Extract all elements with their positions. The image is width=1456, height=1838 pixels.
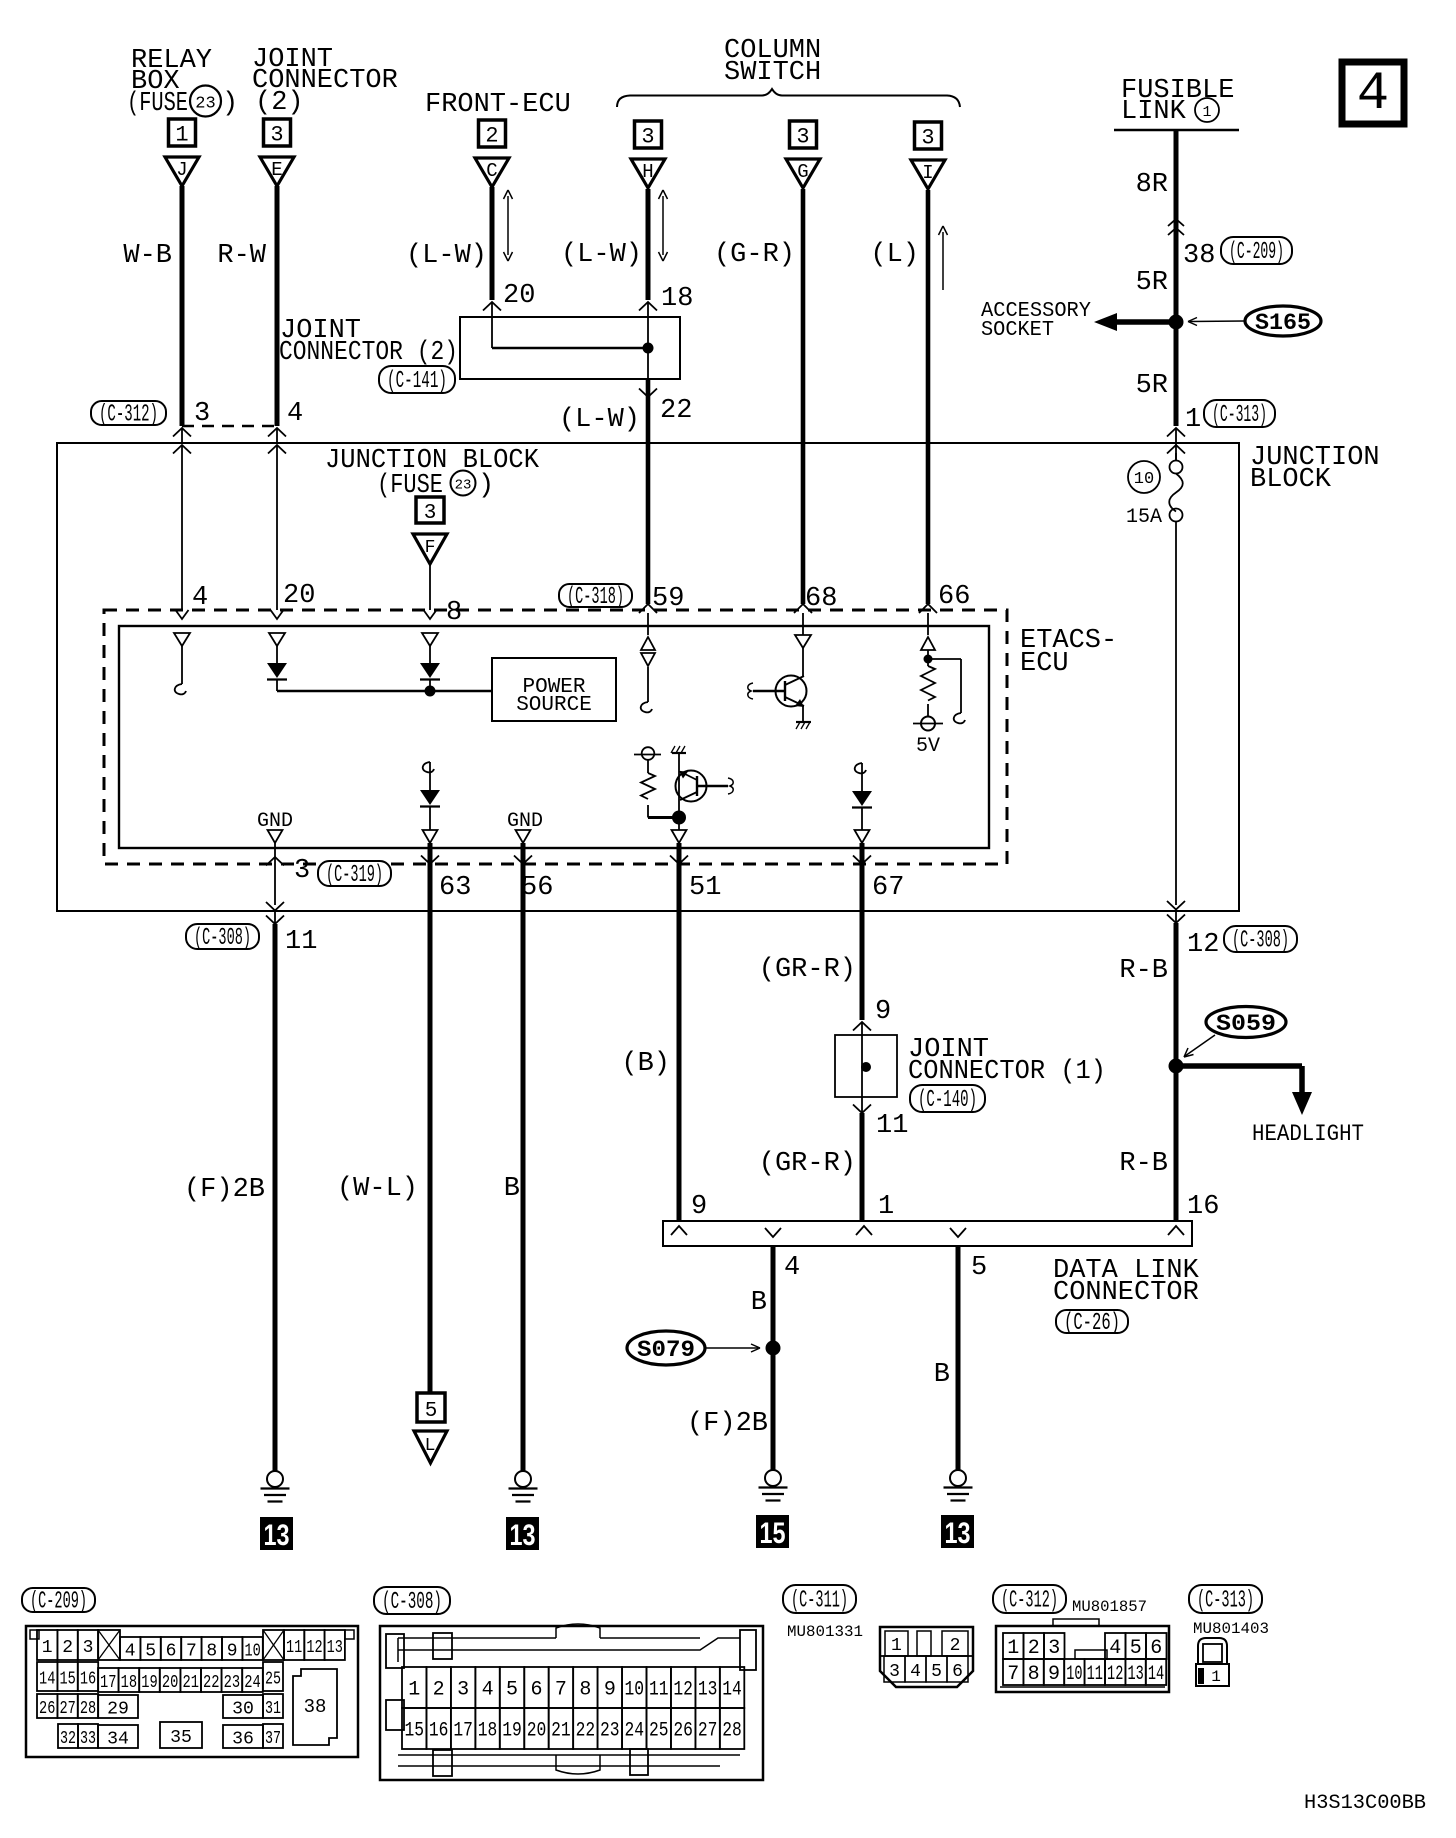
svg-text:2: 2	[485, 124, 498, 149]
svg-text:29: 29	[107, 1700, 129, 1720]
svg-text:H: H	[642, 161, 653, 183]
svg-text:15: 15	[760, 1517, 786, 1550]
svg-text:17: 17	[100, 1673, 116, 1693]
svg-text:R-B: R-B	[1119, 1149, 1168, 1179]
svg-text:MU801331: MU801331	[787, 1623, 863, 1641]
svg-text:15: 15	[59, 1670, 75, 1690]
svg-text:22: 22	[576, 1720, 596, 1743]
svg-text:21: 21	[182, 1673, 198, 1693]
svg-text:9: 9	[1048, 1663, 1060, 1686]
svg-text:1: 1	[1211, 1668, 1221, 1686]
svg-text:SOCKET: SOCKET	[981, 319, 1054, 342]
svg-text:18: 18	[121, 1673, 137, 1693]
svg-text:20: 20	[162, 1673, 178, 1693]
svg-text:3: 3	[641, 125, 654, 150]
svg-text:CONNECTOR (2): CONNECTOR (2)	[279, 338, 458, 368]
svg-text:16: 16	[80, 1670, 96, 1690]
svg-text:25: 25	[265, 1670, 281, 1690]
svg-text:10: 10	[1134, 470, 1154, 489]
svg-text:12: 12	[673, 1679, 693, 1702]
svg-text:3: 3	[889, 1662, 900, 1682]
svg-text:5: 5	[931, 1662, 942, 1682]
svg-text:(F)2B: (F)2B	[184, 1175, 265, 1205]
svg-text:10: 10	[1066, 1663, 1082, 1686]
svg-text:15: 15	[404, 1720, 424, 1743]
svg-text:(C-318): (C-318)	[567, 584, 624, 611]
svg-text:12: 12	[1187, 930, 1219, 960]
svg-text:(L-W): (L-W)	[559, 405, 640, 435]
svg-text:8: 8	[206, 1642, 217, 1662]
svg-text:3: 3	[1048, 1637, 1060, 1660]
svg-text:(C-26): (C-26)	[1064, 1310, 1120, 1337]
svg-text:R-W: R-W	[217, 241, 266, 271]
svg-text:4: 4	[1357, 64, 1389, 125]
svg-text:26: 26	[673, 1720, 693, 1743]
svg-text:13: 13	[698, 1679, 718, 1702]
svg-text:2: 2	[1028, 1637, 1040, 1660]
svg-text:7: 7	[1007, 1663, 1019, 1686]
svg-text:(C-140): (C-140)	[918, 1087, 977, 1114]
svg-text:51: 51	[689, 873, 721, 903]
svg-text:36: 36	[232, 1730, 254, 1750]
svg-text:FRONT-ECU: FRONT-ECU	[425, 90, 571, 120]
svg-text:5: 5	[425, 1400, 438, 1423]
svg-text:SWITCH: SWITCH	[724, 58, 821, 88]
svg-text:(G-R): (G-R)	[714, 240, 795, 270]
svg-text:13: 13	[327, 1638, 343, 1658]
svg-text:6: 6	[952, 1662, 963, 1682]
svg-text:11: 11	[649, 1679, 669, 1702]
svg-text:3: 3	[921, 126, 934, 151]
svg-text:13: 13	[264, 1519, 290, 1552]
svg-text:C: C	[486, 160, 497, 182]
svg-text:5: 5	[1130, 1637, 1142, 1660]
svg-text:2: 2	[433, 1679, 445, 1702]
svg-text:(L-W): (L-W)	[406, 241, 487, 271]
svg-text:20: 20	[503, 281, 535, 311]
svg-text:63: 63	[439, 873, 471, 903]
svg-text:(C-209): (C-209)	[1229, 239, 1284, 266]
svg-text:38: 38	[1183, 241, 1215, 271]
svg-text:28: 28	[80, 1699, 96, 1719]
svg-text:(F)2B: (F)2B	[687, 1409, 768, 1439]
svg-text:I: I	[922, 162, 933, 184]
svg-text:(L): (L)	[870, 240, 919, 270]
svg-text:9: 9	[691, 1192, 707, 1222]
svg-text:B: B	[504, 1174, 520, 1204]
svg-text:4: 4	[784, 1253, 800, 1283]
svg-text:(L-W): (L-W)	[561, 240, 642, 270]
svg-text:1: 1	[1185, 405, 1201, 435]
svg-text:(FUSE: (FUSE	[127, 89, 188, 119]
svg-text:18: 18	[478, 1720, 498, 1743]
svg-text:(B): (B)	[621, 1049, 670, 1079]
svg-text:27: 27	[698, 1720, 718, 1743]
svg-text:6: 6	[166, 1642, 177, 1662]
svg-text:56: 56	[521, 873, 553, 903]
svg-text:14: 14	[722, 1679, 742, 1702]
svg-text:1: 1	[42, 1638, 53, 1658]
svg-text:13: 13	[945, 1517, 971, 1550]
svg-text:BLOCK: BLOCK	[1250, 465, 1332, 495]
svg-text:30: 30	[232, 1700, 254, 1720]
svg-text:38: 38	[304, 1696, 327, 1718]
svg-text:16: 16	[429, 1720, 449, 1743]
svg-text:4: 4	[287, 399, 303, 429]
svg-text:23: 23	[224, 1673, 240, 1693]
svg-text:3: 3	[270, 123, 283, 148]
svg-text:2: 2	[62, 1638, 73, 1658]
svg-text:14: 14	[1148, 1663, 1164, 1686]
svg-text:32: 32	[60, 1729, 76, 1749]
svg-text:(C-141): (C-141)	[387, 368, 447, 395]
svg-text:(C-308): (C-308)	[382, 1589, 442, 1616]
svg-text:(C-312): (C-312)	[1001, 1588, 1058, 1615]
svg-text:S079: S079	[637, 1337, 695, 1363]
svg-text:10: 10	[244, 1642, 260, 1662]
svg-text:24: 24	[244, 1673, 260, 1693]
svg-text:5: 5	[971, 1253, 987, 1283]
svg-text:9: 9	[227, 1642, 238, 1662]
svg-text:4: 4	[1109, 1637, 1121, 1660]
svg-text:10: 10	[624, 1679, 644, 1702]
svg-text:3: 3	[424, 502, 437, 525]
svg-text:17: 17	[453, 1720, 473, 1743]
svg-text:CONNECTOR: CONNECTOR	[1053, 1278, 1199, 1308]
svg-text:4: 4	[125, 1642, 136, 1662]
svg-text:20: 20	[527, 1720, 547, 1743]
svg-text:66: 66	[938, 582, 970, 612]
svg-text:3: 3	[83, 1638, 94, 1658]
svg-text:(C-312): (C-312)	[99, 402, 158, 429]
svg-text:S059: S059	[1216, 1011, 1276, 1037]
svg-text:13: 13	[1127, 1663, 1143, 1686]
svg-text:HEADLIGHT: HEADLIGHT	[1252, 1121, 1364, 1147]
svg-text:31: 31	[265, 1699, 281, 1719]
svg-text:13: 13	[510, 1519, 536, 1552]
svg-text:E: E	[271, 159, 282, 181]
svg-text:35: 35	[170, 1728, 192, 1748]
svg-text:3: 3	[796, 125, 809, 150]
svg-text:27: 27	[59, 1699, 75, 1719]
svg-text:5V: 5V	[916, 735, 940, 758]
svg-text:37: 37	[265, 1729, 281, 1749]
svg-text:(C-313): (C-313)	[1197, 1588, 1254, 1615]
svg-text:6: 6	[1150, 1637, 1162, 1660]
svg-text:3: 3	[194, 399, 210, 429]
svg-text:12: 12	[306, 1638, 322, 1658]
svg-text:SOURCE: SOURCE	[516, 694, 592, 717]
svg-text:15A: 15A	[1126, 506, 1162, 529]
svg-text:L: L	[425, 1436, 436, 1456]
svg-text:MU801857: MU801857	[1072, 1598, 1147, 1616]
svg-text:9: 9	[875, 997, 891, 1027]
svg-text:8R: 8R	[1136, 170, 1168, 200]
svg-text:1: 1	[1007, 1637, 1019, 1660]
svg-text:(W-L): (W-L)	[337, 1174, 418, 1204]
svg-text:7: 7	[555, 1679, 567, 1702]
svg-text:34: 34	[107, 1730, 129, 1750]
svg-text:18: 18	[661, 284, 693, 314]
svg-text:B: B	[751, 1288, 767, 1318]
svg-text:23: 23	[600, 1720, 620, 1743]
svg-text:19: 19	[502, 1720, 522, 1743]
svg-text:25: 25	[649, 1720, 669, 1743]
svg-text:20: 20	[283, 581, 315, 611]
svg-text:3: 3	[294, 856, 310, 886]
svg-text:5: 5	[145, 1642, 156, 1662]
svg-text:11: 11	[286, 1638, 302, 1658]
svg-text:12: 12	[1107, 1663, 1123, 1686]
svg-text:8: 8	[579, 1679, 591, 1702]
svg-text:9: 9	[604, 1679, 616, 1702]
svg-text:1: 1	[891, 1636, 902, 1656]
svg-text:(C-209): (C-209)	[30, 1589, 87, 1616]
svg-text:28: 28	[722, 1720, 742, 1743]
svg-text:CONNECTOR (1): CONNECTOR (1)	[908, 1057, 1106, 1087]
svg-text:(2): (2)	[255, 88, 304, 118]
svg-text:16: 16	[1187, 1192, 1219, 1222]
svg-text:2: 2	[950, 1636, 961, 1656]
svg-text:5: 5	[506, 1679, 518, 1702]
svg-text:8: 8	[446, 598, 462, 628]
svg-text:4: 4	[482, 1679, 494, 1702]
svg-text:1: 1	[408, 1679, 420, 1702]
svg-text:MU801403: MU801403	[1193, 1620, 1269, 1638]
svg-text:1: 1	[1202, 104, 1211, 121]
svg-text:(C-308): (C-308)	[1232, 928, 1289, 955]
svg-text:1: 1	[175, 123, 188, 148]
svg-text:5R: 5R	[1136, 268, 1168, 298]
svg-text:21: 21	[551, 1720, 571, 1743]
svg-text:H3S13C00BB: H3S13C00BB	[1304, 1792, 1426, 1815]
svg-text:22: 22	[203, 1673, 219, 1693]
svg-text:S165: S165	[1255, 310, 1311, 336]
svg-text:33: 33	[80, 1729, 96, 1749]
svg-text:23: 23	[195, 95, 215, 114]
svg-text:(GR-R): (GR-R)	[759, 955, 856, 985]
svg-text:67: 67	[872, 873, 904, 903]
svg-text:F: F	[425, 538, 436, 558]
svg-text:1: 1	[878, 1192, 894, 1222]
svg-text:LINK: LINK	[1121, 97, 1187, 127]
svg-text:): )	[222, 89, 238, 119]
svg-text:(C-308): (C-308)	[194, 925, 251, 952]
svg-text:ECU: ECU	[1020, 649, 1069, 679]
svg-text:4: 4	[910, 1662, 921, 1682]
svg-text:(C-311): (C-311)	[791, 1588, 848, 1615]
svg-text:(C-313): (C-313)	[1212, 402, 1267, 429]
svg-text:11: 11	[1087, 1663, 1103, 1686]
svg-text:26: 26	[39, 1699, 55, 1719]
svg-text:B: B	[934, 1360, 950, 1390]
svg-text:19: 19	[141, 1673, 157, 1693]
svg-text:23: 23	[455, 478, 472, 494]
svg-text:R-B: R-B	[1119, 956, 1168, 986]
svg-text:3: 3	[457, 1679, 469, 1702]
svg-text:6: 6	[530, 1679, 542, 1702]
svg-text:(GR-R): (GR-R)	[759, 1149, 856, 1179]
svg-text:7: 7	[186, 1642, 197, 1662]
svg-text:(C-319): (C-319)	[326, 862, 383, 889]
svg-text:J: J	[176, 159, 187, 181]
svg-text:22: 22	[660, 396, 692, 426]
svg-text:W-B: W-B	[123, 241, 172, 271]
svg-text:11: 11	[285, 927, 317, 957]
svg-text:11: 11	[876, 1111, 908, 1141]
svg-text:5R: 5R	[1136, 371, 1168, 401]
svg-text:): )	[478, 471, 494, 501]
svg-text:24: 24	[624, 1720, 644, 1743]
svg-text:8: 8	[1028, 1663, 1040, 1686]
svg-text:14: 14	[39, 1670, 55, 1690]
svg-text:G: G	[797, 161, 808, 183]
